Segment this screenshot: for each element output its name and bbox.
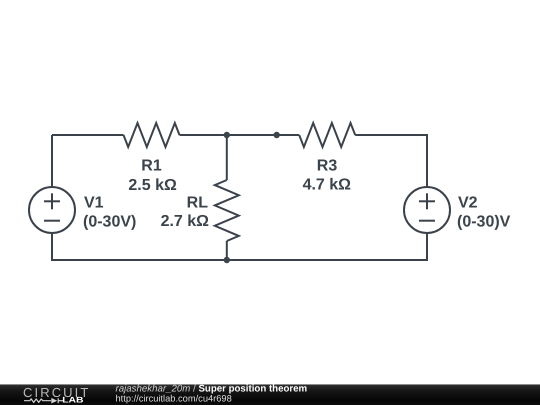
wire: [180, 134, 227, 136]
svg-text:2.5 kΩ: 2.5 kΩ: [128, 177, 177, 194]
wire: [355, 135, 427, 187]
wire: [277, 134, 300, 136]
node B: [274, 132, 280, 138]
node C: [224, 257, 230, 263]
wire: [227, 233, 427, 260]
wire: [51, 135, 53, 187]
footer text: [116, 384, 308, 404]
svg-text:http://circuitlab.com/cu4r698: http://circuitlab.com/cu4r698: [116, 394, 232, 404]
svg-text:4.7 kΩ: 4.7 kΩ: [303, 177, 352, 194]
wire: [52, 233, 227, 260]
voltage source V2: [404, 187, 450, 233]
svg-text:(0-30)V: (0-30)V: [457, 213, 511, 230]
node A: [224, 132, 230, 138]
svg-text:V2: V2: [458, 195, 478, 212]
svg-text:RL: RL: [187, 195, 209, 212]
resistor RL: [215, 180, 239, 241]
wire: [226, 135, 228, 180]
svg-text:V1: V1: [84, 195, 104, 212]
CircuitLab logo: [23, 385, 90, 405]
wire: [226, 241, 228, 260]
wire: [227, 134, 277, 136]
wire: [52, 134, 124, 136]
svg-text:(0-30V): (0-30V): [83, 213, 136, 230]
svg-text:LAB: LAB: [62, 396, 83, 405]
voltage source V1: [29, 187, 75, 233]
svg-text:R1: R1: [141, 158, 162, 175]
footer bar: [0, 384, 540, 405]
resistor R3: [299, 123, 355, 147]
svg-text:2.7 kΩ: 2.7 kΩ: [161, 213, 210, 230]
resistor R1: [124, 123, 180, 147]
svg-text:R3: R3: [317, 158, 338, 175]
